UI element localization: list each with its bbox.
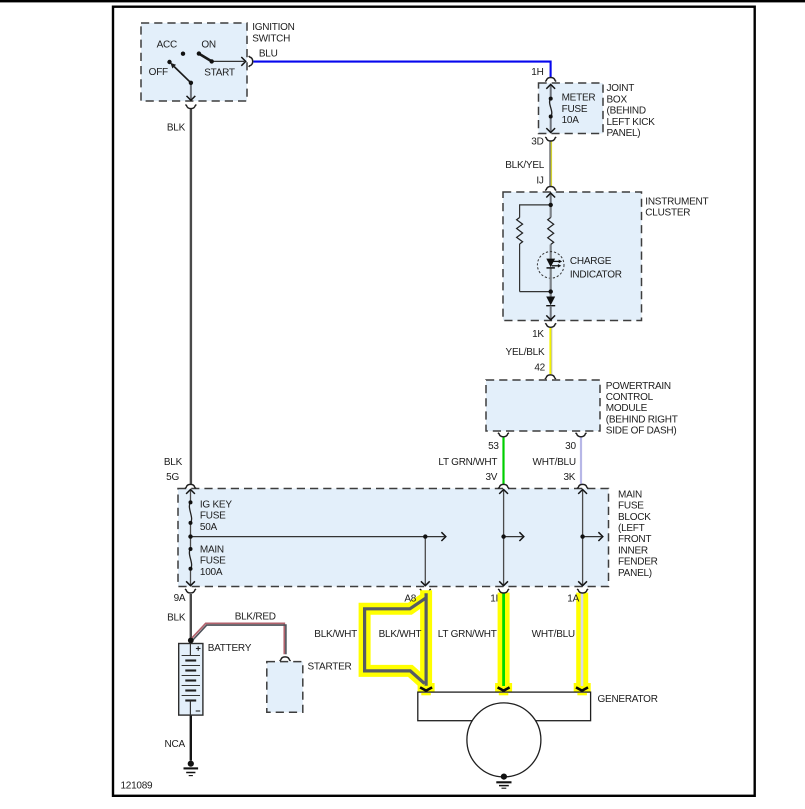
svg-text:START: START: [204, 67, 235, 78]
svg-text:BLK: BLK: [164, 457, 183, 468]
svg-text:BLK/RED: BLK/RED: [235, 611, 276, 622]
svg-text:PANEL): PANEL): [618, 568, 652, 579]
svg-text:BOX: BOX: [607, 94, 628, 105]
svg-text:3V: 3V: [485, 472, 497, 483]
svg-text:FENDER: FENDER: [618, 557, 658, 568]
svg-text:FUSE: FUSE: [618, 501, 644, 512]
svg-text:121089: 121089: [121, 781, 154, 792]
svg-text:(BEHIND: (BEHIND: [607, 106, 646, 117]
svg-text:BLK/WHT: BLK/WHT: [314, 629, 357, 640]
svg-text:ACC: ACC: [157, 40, 177, 51]
svg-text:STARTER: STARTER: [308, 662, 352, 673]
svg-text:MAIN: MAIN: [618, 489, 642, 500]
svg-text:CONTROL: CONTROL: [606, 392, 654, 403]
svg-text:FRONT: FRONT: [618, 534, 651, 545]
svg-text:LEFT KICK: LEFT KICK: [607, 117, 656, 128]
svg-text:BATTERY: BATTERY: [208, 643, 252, 654]
svg-text:50A: 50A: [200, 522, 218, 533]
svg-text:BLK/YEL: BLK/YEL: [505, 160, 545, 171]
svg-text:IGNITION: IGNITION: [252, 22, 294, 33]
svg-text:FUSE: FUSE: [200, 556, 226, 567]
svg-text:MODULE: MODULE: [606, 403, 648, 414]
svg-text:BLU: BLU: [259, 48, 278, 59]
svg-text:BLK: BLK: [167, 613, 186, 624]
svg-text:YEL/BLK: YEL/BLK: [506, 347, 545, 358]
svg-text:1A: 1A: [567, 594, 579, 605]
svg-text:3K: 3K: [563, 472, 575, 483]
svg-text:OFF: OFF: [149, 67, 168, 78]
svg-text:3D: 3D: [531, 137, 543, 148]
svg-text:SIDE OF DASH): SIDE OF DASH): [606, 426, 677, 437]
svg-text:5G: 5G: [166, 472, 179, 483]
svg-text:1K: 1K: [532, 329, 544, 340]
svg-text:LT GRN/WHT: LT GRN/WHT: [438, 629, 497, 640]
svg-text:JOINT: JOINT: [607, 83, 635, 94]
svg-text:INDICATOR: INDICATOR: [570, 269, 622, 280]
svg-text:1H: 1H: [531, 67, 543, 78]
svg-text:BLK: BLK: [167, 122, 186, 133]
svg-text:FUSE: FUSE: [562, 104, 588, 115]
svg-text:INSTRUMENT: INSTRUMENT: [645, 196, 708, 207]
svg-text:(BEHIND RIGHT: (BEHIND RIGHT: [606, 414, 678, 425]
svg-text:WHT/BLU: WHT/BLU: [533, 457, 576, 468]
svg-text:42: 42: [534, 363, 545, 374]
svg-text:NCA: NCA: [165, 739, 186, 750]
svg-text:30: 30: [565, 441, 576, 452]
svg-text:FUSE: FUSE: [200, 511, 226, 522]
svg-text:SWITCH: SWITCH: [252, 33, 290, 44]
svg-text:(LEFT: (LEFT: [618, 523, 645, 534]
svg-text:BLK/WHT: BLK/WHT: [379, 629, 422, 640]
svg-text:1I: 1I: [490, 594, 498, 605]
svg-text:ON: ON: [201, 40, 216, 51]
svg-text:METER: METER: [562, 93, 596, 104]
svg-text:IG KEY: IG KEY: [200, 499, 232, 510]
svg-text:A8: A8: [404, 593, 416, 604]
svg-text:INNER: INNER: [618, 545, 648, 556]
svg-text:BLOCK: BLOCK: [618, 512, 651, 523]
svg-text:PANEL): PANEL): [607, 128, 641, 139]
svg-text:WHT/BLU: WHT/BLU: [532, 629, 575, 640]
svg-text:53: 53: [488, 441, 499, 452]
svg-text:10A: 10A: [562, 115, 580, 126]
svg-text:100A: 100A: [200, 567, 223, 578]
svg-text:IJ: IJ: [536, 176, 544, 187]
svg-text:9A: 9A: [174, 593, 186, 604]
svg-text:CHARGE: CHARGE: [570, 256, 612, 267]
svg-text:GENERATOR: GENERATOR: [598, 694, 658, 705]
svg-text:POWERTRAIN: POWERTRAIN: [606, 381, 671, 392]
svg-text:CLUSTER: CLUSTER: [645, 208, 690, 219]
svg-text:LT GRN/WHT: LT GRN/WHT: [438, 457, 497, 468]
svg-text:MAIN: MAIN: [200, 544, 224, 555]
